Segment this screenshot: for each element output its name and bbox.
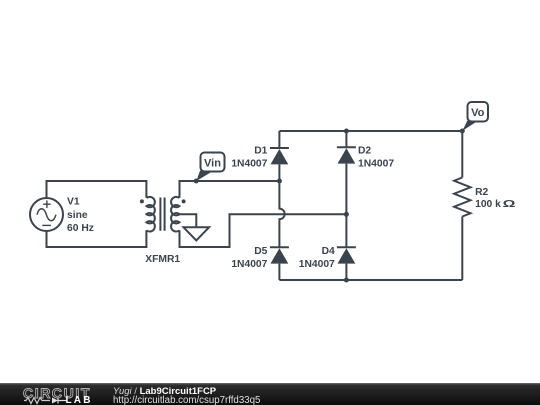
label D5	[231, 246, 267, 270]
junction dot Vin attach	[194, 179, 199, 184]
svg-text:R2: R2	[475, 187, 488, 198]
wire secondary top to bridge (Vin net)	[180, 181, 280, 198]
footer url text	[113, 396, 260, 405]
junction dot Vo attach	[460, 129, 465, 134]
node label Vin	[196, 153, 224, 182]
primary phase dot	[140, 199, 144, 203]
svg-text:V1: V1	[67, 197, 80, 208]
voltage source V1	[30, 198, 63, 231]
svg-text:D2: D2	[358, 145, 371, 156]
svg-text:sine: sine	[67, 210, 88, 221]
logo diode glyph	[52, 398, 58, 404]
wire right branch middle	[345, 164, 347, 248]
wire top rail to R2	[461, 131, 463, 178]
svg-text:1N4007: 1N4007	[231, 159, 267, 170]
logo resistor glyph	[24, 398, 50, 404]
svg-text:XFMR1: XFMR1	[145, 254, 180, 265]
wire bottom rail	[279, 279, 462, 281]
wire left branch middle with hop over mid wire	[279, 164, 284, 247]
footer bar	[0, 383, 540, 405]
svg-text:D4: D4	[322, 246, 335, 257]
diode D2	[337, 147, 356, 163]
svg-text:1N4007: 1N4007	[299, 259, 335, 270]
footer title text	[113, 387, 216, 396]
label D1	[231, 145, 267, 169]
wire R2 to bottom rail	[461, 217, 463, 281]
label D4	[299, 246, 335, 270]
svg-text:Ω: Ω	[503, 198, 516, 210]
node label Vo	[463, 102, 489, 131]
secondary coil	[171, 197, 179, 232]
ground	[184, 227, 210, 240]
svg-text:1N4007: 1N4007	[358, 159, 394, 170]
secondary phase dot	[182, 199, 186, 203]
label R2 100 kOhm	[475, 187, 516, 210]
junction dot D4 bottom	[344, 278, 349, 283]
wire top rail	[279, 130, 462, 132]
wire right branch top	[345, 131, 347, 147]
wire right branch bottom	[345, 264, 347, 280]
junction dot D2 top	[344, 129, 349, 134]
diode D4	[337, 247, 356, 263]
junction dot mid wire at right branch	[344, 212, 349, 217]
wire left branch bottom	[278, 264, 280, 280]
junction dot Vin wire at left branch	[277, 179, 282, 184]
CircuitLab logo	[23, 388, 97, 398]
svg-text:60 Hz: 60 Hz	[67, 223, 94, 234]
label D2	[358, 145, 394, 169]
diode D5	[270, 247, 289, 263]
svg-text:1N4007: 1N4007	[231, 259, 267, 270]
svg-text:Vo: Vo	[471, 107, 485, 119]
svg-text:D5: D5	[254, 246, 267, 257]
svg-text:D1: D1	[254, 145, 267, 156]
wire center tap to ground	[180, 214, 197, 227]
primary coil	[146, 197, 154, 232]
core	[160, 198, 164, 231]
wire secondary bottom to bridge mid	[180, 214, 347, 247]
transformer XFMR1	[140, 197, 186, 232]
svg-text:100 k: 100 k	[475, 199, 501, 210]
resistor R2	[454, 178, 470, 217]
wire V1 bottom to XFMR1 primary bottom	[47, 230, 147, 247]
svg-text:Vin: Vin	[204, 157, 221, 169]
diode D1	[270, 148, 289, 164]
label V1 sine 60 Hz	[67, 197, 94, 235]
wire V1 top to XFMR1 primary top	[47, 181, 147, 199]
wire left branch top	[278, 131, 280, 148]
